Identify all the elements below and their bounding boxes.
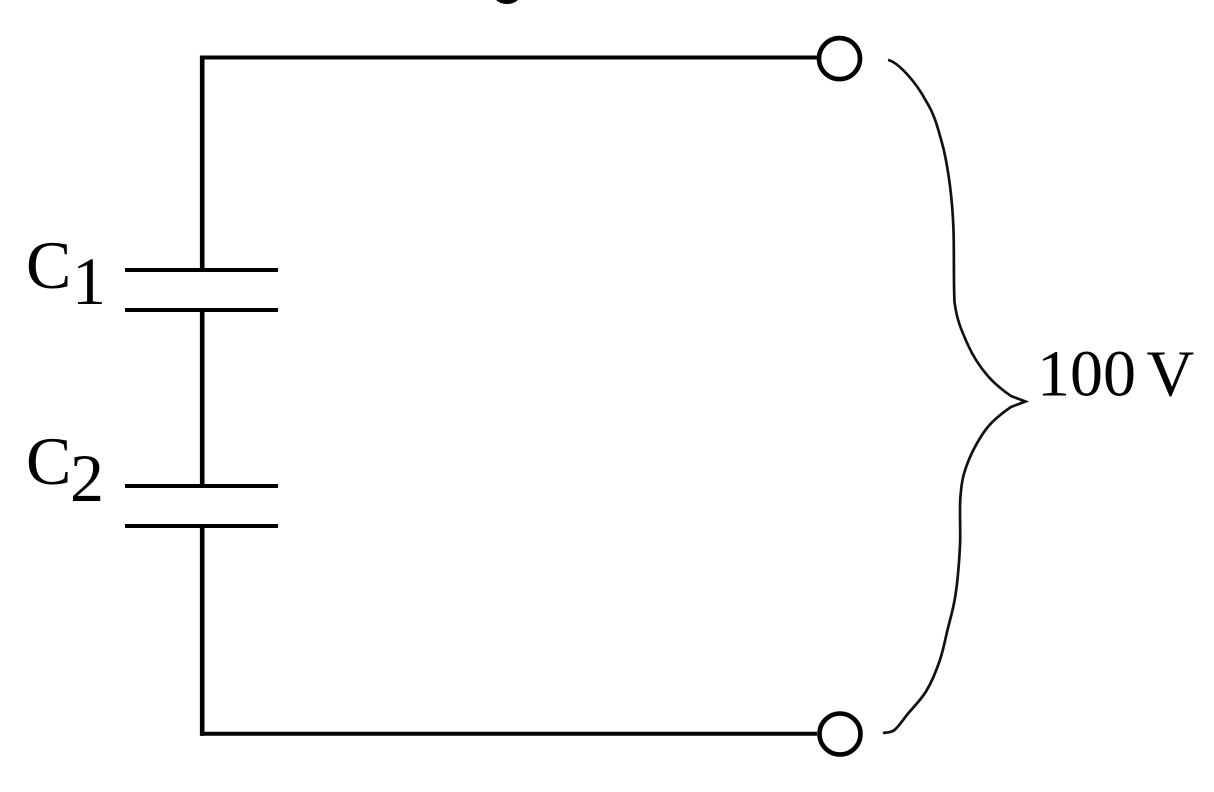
svg-text:V: V: [1147, 338, 1195, 411]
svg-text:C: C: [26, 423, 71, 499]
svg-text:1: 1: [72, 243, 106, 319]
svg-text:C: C: [26, 227, 71, 303]
svg-text:2: 2: [70, 440, 104, 516]
svg-text:100: 100: [1037, 338, 1136, 411]
